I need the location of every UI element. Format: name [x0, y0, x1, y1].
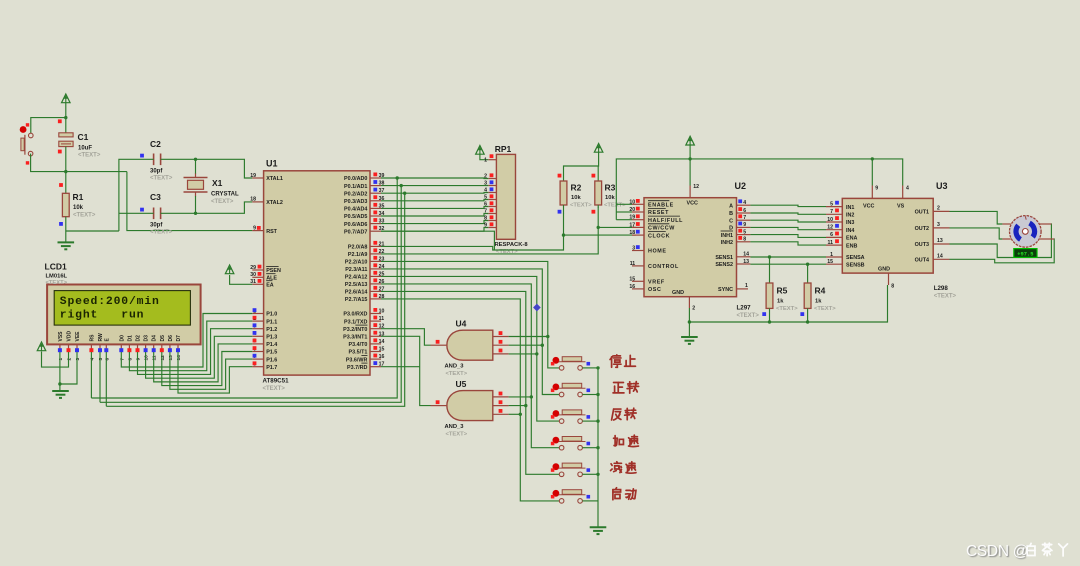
- svg-text:30pf: 30pf: [150, 169, 163, 175]
- svg-text:<TEXT>: <TEXT>: [446, 371, 468, 377]
- wire U5 input 3 to bus: [509, 413, 521, 415]
- push button 4: [551, 437, 590, 451]
- junction rail at U3 VCC: [871, 157, 874, 160]
- svg-text:18: 18: [250, 197, 256, 203]
- svg-text:3: 3: [937, 222, 940, 228]
- pin D4 of LCD1: [152, 335, 158, 352]
- stepper motor M body: [1002, 216, 1054, 248]
- crystal X1: [184, 173, 208, 197]
- svg-text:10k: 10k: [605, 195, 615, 201]
- wire ENABLE to rail: [616, 203, 632, 205]
- svg-text:ENB: ENB: [846, 243, 857, 249]
- svg-text:30: 30: [250, 272, 256, 278]
- svg-text:<TEXT>: <TEXT>: [570, 203, 592, 209]
- pin 22 P2.1/A9 of U1: [348, 248, 385, 258]
- label C1: [78, 132, 101, 159]
- wire VEE join VSS: [60, 352, 77, 384]
- svg-text:5: 5: [830, 201, 833, 207]
- label AND_3 U4: [445, 364, 468, 378]
- svg-text:5: 5: [98, 358, 104, 361]
- pin 4 A of U2: [729, 199, 750, 209]
- svg-text:P1.4: P1.4: [266, 342, 277, 348]
- label RESPACK-8: [495, 242, 529, 255]
- label R1: [73, 192, 96, 219]
- svg-text:GND: GND: [672, 290, 684, 296]
- pin VEE of LCD1: [75, 331, 81, 352]
- junction U4 input 3: [535, 352, 538, 355]
- state square C3: [140, 208, 144, 212]
- wire R5 to gnd bus: [769, 308, 771, 322]
- wire button 2 to common: [582, 394, 598, 396]
- svg-text:OUT3: OUT3: [915, 242, 929, 248]
- svg-text:P3.6/WR: P3.6/WR: [346, 357, 368, 363]
- svg-text:D5: D5: [160, 335, 166, 342]
- wire P2.6 to button 5: [381, 291, 559, 474]
- pin 5 INH1 of U2: [721, 229, 751, 239]
- respack RP1 body: [496, 154, 515, 239]
- svg-text:12: 12: [160, 355, 166, 361]
- svg-text:29: 29: [250, 265, 256, 271]
- resistor R1: [62, 193, 69, 216]
- svg-text:CONTROL: CONTROL: [648, 264, 679, 270]
- wire P2.4 to button 3: [381, 276, 559, 421]
- svg-text:U1: U1: [266, 159, 278, 169]
- svg-text:P2.4/A12: P2.4/A12: [345, 275, 367, 281]
- svg-text:RST: RST: [266, 229, 277, 235]
- svg-text:16: 16: [379, 354, 385, 360]
- stepper controller U2 L297 body: [644, 198, 737, 297]
- svg-text:INH2: INH2: [721, 240, 733, 246]
- wire P0.2 to RP1 pin 4: [381, 192, 488, 195]
- junction R4 gnd: [806, 320, 809, 323]
- state square R4 bottom: [800, 312, 804, 316]
- svg-text:P1.6: P1.6: [266, 357, 277, 363]
- svg-text:P1.3: P1.3: [266, 335, 277, 341]
- watermark char bai: [1027, 543, 1035, 555]
- pin number 3 of LCD1: [75, 358, 81, 361]
- pin 15 P3.5/T1 of U1: [349, 346, 385, 356]
- svg-text:P3.1/TXD: P3.1/TXD: [344, 319, 367, 325]
- svg-text:L297: L297: [737, 305, 752, 312]
- pin E of LCD1: [104, 338, 110, 353]
- pin D7 of LCD1: [176, 335, 182, 352]
- pin 4 of RP1: [484, 187, 496, 193]
- wire P2.5 to button 4: [381, 284, 559, 448]
- svg-text:7: 7: [119, 358, 125, 361]
- watermark CSDN: [966, 543, 1028, 560]
- wire power arrow stem U2: [689, 145, 691, 185]
- svg-text:17: 17: [629, 222, 635, 228]
- svg-text:P3.7/RD: P3.7/RD: [347, 365, 367, 371]
- power VCC arrow top-left: [62, 94, 71, 103]
- pin number 5 of LCD1: [98, 358, 104, 361]
- junction U5 input 1: [530, 395, 533, 398]
- pin 14 OUT4 of U3: [915, 253, 950, 263]
- pin 9 of RP1: [484, 222, 496, 228]
- wire INH2 to ENB: [750, 242, 826, 245]
- resistor R4: [804, 283, 811, 308]
- wire D2 to P1.2: [138, 329, 253, 375]
- wire D7 to P1.7: [178, 352, 252, 393]
- svg-text:VEE: VEE: [75, 331, 81, 342]
- svg-text:18: 18: [629, 230, 635, 236]
- label 正转 char1: [613, 382, 624, 392]
- wire D to IN4: [750, 227, 826, 229]
- label 停止 char2: [625, 355, 636, 366]
- wire C3 left to cap rail: [119, 212, 154, 214]
- pin number 11 of LCD1: [152, 355, 158, 360]
- svg-text:12: 12: [827, 225, 833, 231]
- pin 7 IN2 of U3: [826, 209, 854, 219]
- wire button 6 to common: [582, 500, 598, 502]
- wire P3.7 tap to U5 output net: [381, 366, 420, 368]
- pin 3 P1.2 of U1: [252, 323, 277, 333]
- svg-text:P3.0/RXD: P3.0/RXD: [343, 312, 367, 318]
- wire VSS to ground: [59, 352, 61, 391]
- svg-text:16: 16: [629, 284, 635, 290]
- wire R2 bottom: [563, 205, 565, 214]
- pin 4 P1.3 of U1: [252, 331, 277, 341]
- wire button 1 to common: [582, 367, 598, 369]
- pin 5 of RP1: [484, 194, 496, 200]
- svg-text:P2.3/A11: P2.3/A11: [345, 267, 367, 273]
- label RP1: [495, 144, 512, 154]
- junction U5 input 2: [524, 404, 527, 407]
- junction rail at arrow: [688, 157, 691, 160]
- node reset junction: [64, 170, 67, 173]
- svg-text:+97.5: +97.5: [1017, 252, 1033, 258]
- svg-text:15: 15: [827, 259, 833, 265]
- svg-text:P1.1: P1.1: [266, 319, 277, 325]
- svg-text:IN3: IN3: [846, 220, 854, 226]
- svg-text:<TEXT>: <TEXT>: [263, 386, 286, 392]
- wire P0.3 to RP1 pin 5: [381, 200, 488, 201]
- ground below buttons: [590, 527, 607, 534]
- label 启动 char1: [613, 488, 621, 500]
- svg-text:13: 13: [937, 238, 943, 244]
- junction at power/button/C1: [64, 116, 67, 119]
- svg-text:GND: GND: [878, 266, 890, 272]
- wire C3 right to XTAL2: [161, 202, 253, 213]
- pin 6 B of U2: [729, 207, 750, 217]
- svg-text:IN1: IN1: [846, 205, 854, 211]
- state square R2 top: [558, 174, 562, 178]
- svg-text:14: 14: [176, 355, 182, 361]
- wire U5 input 2 to bus: [509, 405, 526, 407]
- lcd text line2: [60, 309, 145, 321]
- label R2: [570, 183, 592, 209]
- svg-text:10: 10: [144, 355, 150, 361]
- junction button 1 common: [596, 366, 599, 369]
- svg-text:X1: X1: [212, 178, 223, 188]
- svg-text:14: 14: [743, 252, 749, 258]
- state square R5 bottom: [762, 312, 766, 316]
- svg-text:10: 10: [827, 217, 833, 223]
- svg-text:7: 7: [830, 209, 833, 215]
- svg-text:CW/CCW: CW/CCW: [648, 226, 675, 232]
- ground below LCD: [52, 391, 69, 398]
- svg-text:10uF: 10uF: [78, 146, 92, 152]
- svg-text:XTAL2: XTAL2: [266, 200, 283, 206]
- svg-text:19: 19: [250, 173, 256, 179]
- wire U4 input 1 to bus: [509, 336, 548, 338]
- svg-text:13: 13: [743, 259, 749, 265]
- wire A to IN1: [750, 205, 826, 206]
- svg-text:SENS1: SENS1: [715, 255, 733, 261]
- pin 11 ENB of U3: [826, 239, 857, 249]
- pin 35 P0.4/AD4 of U1: [344, 203, 384, 213]
- svg-text:P0.1/AD1: P0.1/AD1: [344, 184, 367, 190]
- svg-text:AT89C51: AT89C51: [263, 378, 290, 385]
- wire R1 to ground: [65, 217, 67, 242]
- svg-text:C: C: [729, 218, 733, 224]
- wire P0.0 to RP1 pin 2: [381, 177, 488, 180]
- pin 29 PSEN of U1: [250, 265, 281, 275]
- push button reset: [20, 123, 33, 164]
- svg-text:IN4: IN4: [846, 228, 854, 234]
- junction button 5 common: [596, 473, 599, 476]
- wire U5 output to P3.3: [381, 336, 431, 405]
- pin number 10 of LCD1: [144, 355, 150, 361]
- label U5: [456, 379, 467, 389]
- pin 16 P3.6/WR of U1: [346, 354, 385, 364]
- junction R4 SENS2: [806, 263, 809, 266]
- pin number 8 of LCD1: [127, 358, 133, 361]
- label L298: [934, 285, 957, 300]
- state square R1 top: [59, 183, 63, 187]
- svg-text:D3: D3: [144, 335, 150, 342]
- svg-text:CSDN @: CSDN @: [966, 543, 1028, 560]
- pin 10 IN3 of U3: [826, 216, 854, 226]
- wire C to IN3: [750, 220, 826, 222]
- svg-text:14: 14: [379, 339, 385, 345]
- pin 7 C of U2: [729, 214, 750, 224]
- svg-text:<TEXT>: <TEXT>: [46, 280, 68, 286]
- svg-text:13: 13: [168, 355, 174, 361]
- pin 27 P2.6/A14 of U1: [345, 286, 385, 296]
- wire P2.7 to button 6: [381, 299, 559, 501]
- blue junction marker on bus: [533, 304, 541, 312]
- pin 13 OUT3 of U3: [915, 238, 950, 248]
- wire INH1 to ENA: [750, 235, 826, 238]
- pin 2 OUT1 of U3: [915, 205, 950, 215]
- junction R5 gnd: [768, 320, 771, 323]
- label X1: [211, 178, 239, 205]
- pin number 7 of LCD1: [119, 358, 125, 361]
- pin 1 P1.0 of U1: [252, 308, 277, 318]
- svg-text:10k: 10k: [571, 195, 581, 201]
- pin 8 of RP1: [484, 215, 496, 221]
- wire button bottom to RST rail: [31, 154, 127, 172]
- svg-text:7: 7: [743, 215, 746, 221]
- pin 19 XTAL1 of U1: [250, 173, 283, 182]
- svg-text:P3.5/T1: P3.5/T1: [349, 350, 368, 356]
- wire button top to power node: [31, 118, 66, 136]
- watermark char ya: [1059, 544, 1068, 556]
- push button 2: [551, 383, 590, 397]
- pin 12 IN4 of U3: [826, 224, 854, 234]
- pin number 12 of LCD1: [160, 355, 166, 361]
- push button 5: [551, 463, 590, 477]
- svg-text:1k: 1k: [815, 299, 822, 305]
- power arrow R2R3: [594, 144, 603, 153]
- junction P0.1 riser: [400, 184, 403, 187]
- pin 12 P3.2/INT0 of U1: [343, 323, 384, 333]
- svg-text:HALF/FULL: HALF/FULL: [648, 218, 683, 224]
- resistor R2: [560, 181, 567, 205]
- svg-text:30pf: 30pf: [150, 223, 163, 229]
- svg-text:2: 2: [67, 358, 73, 361]
- pin 2 P1.1 of U1: [252, 316, 277, 326]
- label 加速 char2: [629, 435, 639, 446]
- svg-text:RW: RW: [98, 333, 104, 342]
- svg-text:11: 11: [828, 240, 834, 246]
- wire R4 to gnd bus: [807, 308, 809, 322]
- label 启动 char2: [626, 489, 636, 499]
- wire X1 top stem: [195, 159, 197, 173]
- capacitor C2: [154, 154, 161, 166]
- resistor R5: [766, 283, 773, 308]
- capacitor C1: [59, 133, 73, 147]
- svg-text:D2: D2: [136, 335, 142, 342]
- junction U4 input 1: [546, 335, 549, 338]
- junction X1 top: [194, 158, 197, 161]
- pin 17 CW/CCW of U2: [629, 222, 675, 232]
- wire P0.6 to RP1 pin 8: [381, 221, 488, 224]
- wire D5 to P1.5: [162, 352, 253, 386]
- wire power to C1: [65, 103, 67, 133]
- svg-text:P1.2: P1.2: [266, 327, 277, 333]
- svg-text:4: 4: [906, 186, 909, 192]
- pin 13 P3.3/INT1 of U1: [343, 331, 384, 341]
- pin 39 P0.0/AD0 of U1: [344, 173, 384, 183]
- wire RST rail: [127, 172, 252, 231]
- junction button 2 common: [596, 393, 599, 396]
- svg-text:VCC: VCC: [687, 200, 698, 206]
- wire R4 to SENS2: [807, 264, 809, 283]
- pin 5 P1.4 of U1: [252, 339, 277, 349]
- wire button 4 to common: [582, 447, 598, 449]
- svg-text:SENSB: SENSB: [846, 262, 865, 268]
- pin 23 P2.2/A10 of U1: [345, 256, 385, 266]
- wire VDD to power: [42, 352, 69, 368]
- svg-text:C1: C1: [78, 132, 89, 142]
- wire CLOCK branch: [564, 234, 636, 236]
- driver U3 L298 body: [842, 198, 933, 273]
- svg-text:11: 11: [152, 355, 158, 360]
- wire OUT3 to motor: [950, 224, 1052, 258]
- label LCD1: [45, 262, 68, 287]
- pin 36 P0.3/AD3 of U1: [344, 195, 384, 205]
- wire OUT2 to motor: [950, 228, 1003, 239]
- pin 34 P0.5/AD5 of U1: [344, 211, 384, 221]
- wire U4 output to P3.2: [381, 329, 431, 346]
- label U3: [936, 181, 948, 191]
- svg-text:R5: R5: [777, 286, 788, 296]
- pin RW of LCD1: [98, 333, 104, 352]
- svg-text:9: 9: [253, 225, 256, 231]
- state square C1 bottom: [58, 150, 62, 154]
- wire D1 to P1.1: [129, 321, 252, 371]
- svg-text:R4: R4: [815, 286, 826, 296]
- svg-text:P3.3/INT1: P3.3/INT1: [343, 335, 367, 341]
- lcd text line1: [60, 296, 160, 308]
- label U1: [266, 159, 278, 169]
- pin 11 P3.1/TXD of U1: [344, 316, 384, 326]
- label C2: [150, 139, 173, 182]
- svg-text:RESET: RESET: [648, 210, 669, 216]
- svg-text:P0.6/AD6: P0.6/AD6: [344, 222, 367, 228]
- pin D3 of LCD1: [144, 335, 150, 352]
- pin 2 of RP1: [484, 173, 496, 179]
- wire RESET to rail: [616, 211, 632, 213]
- svg-text:<TEXT>: <TEXT>: [934, 294, 957, 300]
- pin 12 VCC of U2: [687, 186, 698, 207]
- pin 2 GND of U2: [689, 297, 695, 312]
- junction X1 bottom: [194, 212, 197, 215]
- svg-text:EA: EA: [266, 283, 274, 289]
- pin number 4 of LCD1: [89, 358, 95, 361]
- junction P0.2 riser: [403, 192, 406, 195]
- resistor R3: [595, 181, 602, 205]
- label AND_3 U5: [445, 424, 468, 438]
- wire R3 top: [597, 166, 599, 181]
- power arrow EA: [225, 265, 234, 274]
- svg-text:P2.7/A15: P2.7/A15: [345, 297, 367, 303]
- watermark char cha: [1042, 543, 1051, 556]
- svg-text:P0.7/AD7: P0.7/AD7: [344, 229, 367, 235]
- ground below R1: [58, 242, 75, 249]
- pin 6 ENA of U3: [826, 232, 857, 242]
- wire P2.0 to CLOCK with R2 pullup: [381, 213, 564, 250]
- label U2: [735, 181, 747, 191]
- push button 1: [551, 357, 590, 371]
- svg-text:P0.4/AD4: P0.4/AD4: [344, 207, 367, 213]
- pin number 14 of LCD1: [176, 355, 182, 361]
- svg-text:VS: VS: [897, 204, 905, 210]
- svg-text:P0.5/AD5: P0.5/AD5: [344, 214, 367, 220]
- junction U4 input 2: [541, 344, 544, 347]
- svg-text:P3.2/INT0: P3.2/INT0: [343, 327, 367, 333]
- wire P0.7 to RP1 pin 9: [381, 228, 488, 232]
- pin 3 OUT2 of U3: [915, 222, 950, 232]
- label C3: [150, 192, 173, 236]
- svg-text:P2.5/A13: P2.5/A13: [345, 282, 367, 288]
- wire button 3 to common: [582, 420, 598, 422]
- wire U3 VCC stem: [871, 159, 873, 186]
- svg-text:9: 9: [875, 186, 878, 192]
- wire R3 bottom: [597, 205, 599, 208]
- svg-text:LM016L: LM016L: [46, 274, 68, 280]
- pin 18 XTAL2 of U1: [250, 197, 283, 206]
- svg-text:ENA: ENA: [846, 236, 857, 242]
- svg-text:VCC: VCC: [863, 204, 874, 210]
- pin 16 OSC of U2: [629, 284, 661, 293]
- pin 7 of RP1: [484, 208, 496, 214]
- wire SENS1 to SENSA: [750, 256, 826, 258]
- svg-text:D0: D0: [119, 335, 125, 342]
- svg-text:15: 15: [379, 347, 385, 353]
- wire U4 input 3 to bus: [509, 353, 537, 355]
- svg-text:<TEXT>: <TEXT>: [211, 199, 234, 205]
- state square R1 bottom: [59, 222, 63, 226]
- pin 8 INH2 of U2: [721, 236, 751, 246]
- pin 28 P2.7/A15 of U1: [345, 293, 385, 303]
- pin 1 SENSA of U3: [826, 252, 865, 261]
- pin number 13 of LCD1: [168, 355, 174, 361]
- pin 3 of RP1: [484, 180, 496, 186]
- svg-text:<TEXT>: <TEXT>: [78, 153, 101, 159]
